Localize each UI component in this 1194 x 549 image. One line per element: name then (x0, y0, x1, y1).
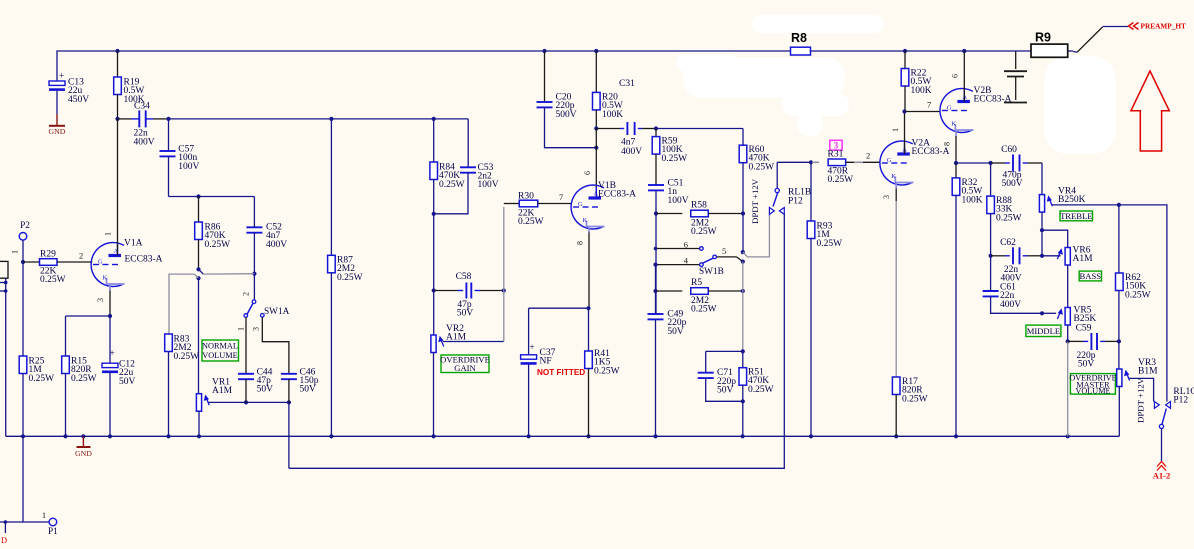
port P1 (0, 436, 58, 537)
svg-text:0.25W: 0.25W (662, 154, 688, 164)
svg-text:R31: R31 (828, 150, 844, 160)
svg-text:7: 7 (559, 192, 563, 202)
resistor R88 (987, 163, 1022, 256)
resistor R62 (1116, 205, 1151, 342)
svg-text:3: 3 (882, 195, 891, 199)
svg-text:0.25W: 0.25W (902, 394, 928, 404)
wire middle wiper row (1040, 311, 1056, 315)
potentiometer VR6 (1040, 246, 1093, 308)
capacitor C62 (989, 238, 1043, 284)
svg-text:VOLUME: VOLUME (202, 351, 238, 360)
svg-text:ECC83-A: ECC83-A (598, 190, 636, 200)
svg-text:400V: 400V (621, 147, 642, 157)
svg-text:0.25W: 0.25W (205, 240, 231, 250)
capacitor C60 (991, 145, 1042, 189)
resistor R25 (19, 262, 54, 436)
capacitor C58 (432, 272, 506, 319)
capacitor C51 (648, 179, 689, 214)
svg-text:GND: GND (75, 449, 92, 458)
net PREAMP_HT (1073, 22, 1186, 53)
erased background patches (676, 15, 1116, 154)
red arrow symbol (1131, 71, 1169, 151)
svg-text:C31: C31 (619, 79, 635, 89)
svg-text:C60: C60 (1001, 145, 1017, 155)
resistor R9 (1031, 31, 1068, 58)
svg-text:0.25W: 0.25W (996, 213, 1022, 223)
capacitor C12 (102, 349, 136, 436)
capacitor C44 (238, 367, 273, 402)
switch SW1A (237, 274, 290, 331)
svg-text:TREBLE: TREBLE (1060, 211, 1092, 221)
capacitor C59 (1068, 324, 1121, 370)
svg-text:R9: R9 (1035, 31, 1051, 45)
wire SW1B column down (742, 262, 744, 352)
svg-text:NOT FITTED: NOT FITTED (537, 368, 585, 377)
svg-text:0.25W: 0.25W (337, 273, 363, 283)
wire VR2 column (433, 291, 435, 336)
svg-text:VOLUME: VOLUME (1075, 387, 1110, 396)
net A1-2 (1153, 429, 1170, 481)
resistor R58 (654, 201, 745, 238)
svg-text:0.25W: 0.25W (691, 227, 717, 237)
svg-text:R29: R29 (40, 250, 56, 260)
resistor R15 (62, 316, 97, 436)
svg-text:2: 2 (79, 251, 83, 261)
svg-text:A1M: A1M (1073, 254, 1094, 264)
svg-text:SW1B: SW1B (699, 267, 724, 277)
resistor R86 (195, 197, 230, 270)
wire R30 to VR2 wiper (443, 207, 504, 342)
capacitor C20 (537, 51, 597, 148)
svg-text:8: 8 (576, 241, 585, 245)
label NORMAL VOLUME (202, 340, 239, 361)
label TREBLE (1060, 211, 1093, 221)
resistor R60 (739, 129, 774, 214)
svg-text:R5: R5 (691, 278, 702, 288)
svg-text:2: 2 (866, 151, 870, 161)
capacitor C-HT (black) (1004, 51, 1027, 103)
svg-text:400V: 400V (1000, 300, 1021, 310)
wire VR4 bottom to VR6 (1040, 228, 1068, 256)
svg-text:1: 1 (11, 250, 20, 254)
resistor R29 (21, 250, 92, 286)
svg-text:K: K (583, 217, 588, 224)
svg-text:NORMAL: NORMAL (202, 342, 238, 351)
svg-text:50V: 50V (667, 327, 684, 337)
svg-text:A1M: A1M (212, 386, 233, 396)
svg-text:P2: P2 (20, 221, 30, 231)
resistor R87 (328, 119, 363, 436)
resistor R59 (652, 129, 687, 186)
svg-text:2: 2 (242, 292, 251, 296)
svg-text:100K: 100K (911, 86, 932, 96)
capacitor C57 (160, 119, 200, 197)
svg-text:P12: P12 (788, 197, 803, 207)
svg-text:GND: GND (49, 127, 66, 136)
potentiometer VR2 (431, 324, 467, 436)
svg-text:K: K (891, 173, 896, 180)
svg-text:0.25W: 0.25W (518, 217, 544, 227)
svg-text:B1M: B1M (1138, 367, 1158, 377)
relay RL1C (1154, 387, 1194, 429)
wire VR1 wiper row (209, 400, 291, 404)
resistor R17 (892, 377, 927, 436)
capacitor C71 (698, 349, 745, 401)
resistor R41 (529, 306, 620, 436)
svg-text:0.25W: 0.25W (817, 239, 843, 249)
svg-text:500V: 500V (1001, 179, 1022, 189)
svg-text:4n7: 4n7 (621, 138, 636, 148)
svg-text:100K: 100K (962, 195, 983, 205)
resistor R84 (430, 119, 465, 214)
resistor R51 (739, 351, 774, 436)
svg-text:100K: 100K (602, 110, 623, 120)
wire C46 to lower bus (288, 402, 290, 468)
resistor R22 (901, 51, 932, 112)
svg-text:400V: 400V (134, 138, 155, 148)
triode V1A (91, 119, 163, 316)
svg-text:0.25W: 0.25W (748, 385, 774, 395)
ground GND (bus) (75, 436, 92, 458)
wire VR3 wiper to RL1C (1129, 378, 1154, 401)
triode V2A (880, 112, 950, 378)
svg-text:1: 1 (891, 128, 900, 132)
svg-text:C34: C34 (134, 102, 150, 112)
wire C57-R86-C52 node (169, 194, 255, 227)
wire R86 to VR1 (198, 278, 200, 394)
wire C34 to C53 node (154, 117, 469, 121)
capacitor C37 (521, 308, 556, 436)
svg-text:K: K (103, 275, 108, 282)
svg-text:5: 5 (722, 246, 726, 256)
ground GND (C13) (49, 114, 66, 136)
wire HT bus (57, 49, 1073, 82)
svg-text:G: G (947, 105, 952, 112)
svg-text:6: 6 (583, 171, 592, 175)
wire VR5 bottom to bus (1066, 339, 1070, 436)
resistor R20 (593, 51, 624, 129)
resistor R32 (952, 163, 983, 436)
wire V2B cathode node (954, 161, 993, 165)
svg-text:+: + (59, 72, 64, 82)
capacitor C13 (49, 72, 89, 115)
svg-text:BASS: BASS (1080, 271, 1102, 281)
svg-text:50V: 50V (257, 385, 274, 395)
svg-text:1: 1 (237, 327, 246, 331)
label MIDDLE (1026, 325, 1061, 336)
resistor R31 (812, 140, 880, 185)
potentiometer VR1 (196, 378, 232, 437)
resistor R19 (114, 51, 145, 119)
svg-text:V1A: V1A (124, 239, 143, 249)
svg-text:6: 6 (684, 240, 688, 250)
svg-text:0.25W: 0.25W (1125, 290, 1151, 300)
svg-text:0.25W: 0.25W (40, 275, 66, 285)
wire C31 node to R60 (654, 126, 743, 130)
svg-text:DPDT +12V: DPDT +12V (750, 178, 760, 224)
potentiometer VR4 (1039, 163, 1085, 230)
svg-text:B250K: B250K (1058, 195, 1086, 205)
svg-text:D: D (1, 535, 7, 545)
svg-text:SW1A: SW1A (264, 307, 290, 317)
svg-text:K: K (951, 121, 956, 128)
wire anode bus V1A (115, 117, 131, 121)
label DPDT +12V (RL1B) (750, 178, 760, 224)
wire SW1A pin3 to C46 (262, 317, 289, 374)
wire V1A cathode node (66, 314, 113, 364)
resistor R83 (165, 334, 199, 436)
svg-text:50V: 50V (1078, 360, 1095, 370)
resistor R30 (504, 192, 572, 228)
triode V2B (940, 51, 1012, 163)
label DPDT +12V (RL1C) (1136, 377, 1146, 423)
svg-text:450V: 450V (68, 95, 89, 105)
svg-text:P12: P12 (1173, 396, 1188, 406)
svg-text:0.25W: 0.25W (174, 352, 200, 362)
port P2 (11, 221, 31, 262)
svg-text:R8: R8 (791, 31, 807, 45)
svg-text:100V: 100V (668, 196, 689, 206)
svg-text:R30: R30 (518, 192, 534, 202)
svg-text:6: 6 (951, 74, 960, 78)
svg-text:50V: 50V (457, 309, 474, 319)
resistor R5 (653, 278, 745, 315)
svg-text:C59: C59 (1076, 324, 1092, 334)
svg-text:ECC83-A: ECC83-A (912, 147, 950, 157)
svg-text:G: G (578, 201, 583, 208)
label OVERDRIVE GAIN (440, 355, 490, 374)
svg-text:400V: 400V (266, 240, 287, 250)
svg-text:ECC83-A: ECC83-A (125, 255, 163, 265)
wire R58 node to SW1B (656, 214, 743, 315)
svg-text:500V: 500V (556, 110, 577, 120)
svg-text:3: 3 (96, 298, 105, 302)
svg-text:100V: 100V (178, 162, 199, 172)
svg-text:8: 8 (943, 142, 952, 146)
svg-text:0.25W: 0.25W (71, 374, 97, 384)
label NOT FITTED (537, 368, 585, 377)
svg-text:1: 1 (104, 232, 113, 236)
connector stub left edge (0, 261, 8, 436)
wire RL1B node row (777, 160, 813, 164)
svg-text:100V: 100V (478, 180, 499, 190)
svg-text:7: 7 (927, 100, 931, 110)
wire SW1A pin1 to C44 (245, 318, 247, 374)
capacitor C53 (434, 119, 499, 214)
wire ground bus (6, 434, 1120, 438)
svg-text:PREAMP_HT: PREAMP_HT (1141, 22, 1187, 31)
svg-text:0.25W: 0.25W (594, 366, 620, 376)
svg-text:G: G (98, 259, 103, 266)
svg-text:1: 1 (42, 510, 46, 520)
potentiometer VR3 (1117, 341, 1158, 436)
potentiometer VR5 (1057, 306, 1096, 342)
svg-text:C62: C62 (1000, 238, 1016, 248)
capacitor C46 (281, 367, 319, 402)
wire V1B anode node (583, 126, 598, 197)
svg-text:0.25W: 0.25W (29, 374, 55, 384)
svg-text:+: + (529, 343, 534, 353)
capacitor C49 (648, 247, 687, 437)
svg-text:P1: P1 (48, 527, 58, 537)
resistor R93 (807, 162, 842, 436)
svg-text:NF: NF (540, 357, 552, 367)
svg-text:0.25W: 0.25W (691, 305, 717, 315)
switch SW1B (656, 240, 745, 277)
capacitor C34 (132, 102, 155, 148)
resistor R8 (791, 31, 811, 55)
svg-text:C58: C58 (456, 272, 472, 282)
capacitor C61 (983, 256, 1042, 313)
svg-text:50V: 50V (119, 377, 136, 387)
svg-text:0.25W: 0.25W (749, 162, 775, 172)
svg-text:50V: 50V (300, 385, 317, 395)
label OVERDRIVE MASTER VOLUME (1069, 374, 1116, 396)
relay RL1B (769, 162, 811, 214)
svg-text:+: + (109, 349, 114, 359)
capacitor C31 (596, 79, 656, 157)
svg-text:A1-2: A1-2 (1153, 471, 1170, 481)
svg-text:G: G (887, 157, 892, 164)
svg-text:MIDDLE: MIDDLE (1027, 326, 1060, 336)
wire gray feedback (SW1A net) (169, 267, 257, 334)
triode V1B (571, 181, 636, 308)
label BASS (1079, 271, 1101, 281)
wire SW1B to relay RL1B (743, 215, 770, 257)
svg-text:0.25W: 0.25W (439, 180, 465, 190)
svg-text:0.25W: 0.25W (828, 175, 854, 185)
wire RL1B output to lower bus (289, 214, 784, 468)
net label D (cut) (1, 522, 7, 545)
svg-text:R58: R58 (691, 201, 707, 211)
wire R84-C53 node to VR2 (432, 212, 436, 291)
svg-text:3: 3 (252, 327, 261, 331)
svg-text:50V: 50V (717, 386, 734, 396)
svg-text:GAIN: GAIN (454, 363, 476, 373)
wire VR4 wiper row (1052, 203, 1167, 402)
wire V2A anode to V2B grid (902, 100, 940, 114)
capacitor C52 (246, 223, 287, 274)
svg-text:ECC83-A: ECC83-A (974, 95, 1012, 105)
svg-text:DPDT +12V: DPDT +12V (1136, 377, 1146, 423)
